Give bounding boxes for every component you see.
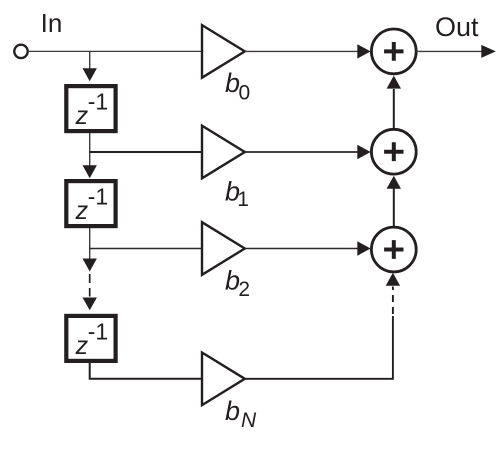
wire: input node to amplifier b0 (28, 50, 203, 52)
svg-text:In: In (41, 8, 63, 38)
delay element Z3 (z^-1) (66, 316, 115, 361)
svg-text:b: b (225, 396, 240, 426)
wire: amplifier b2 output to adder S3 (with arrowhead) (245, 241, 371, 255)
svg-text:-1: -1 (88, 89, 108, 115)
label b1 (225, 176, 249, 211)
wire: tap to amplifier b1 (90, 151, 203, 153)
label bN (225, 396, 257, 432)
svg-text:0: 0 (239, 81, 251, 104)
wire: adder S1 to output Out (with arrowhead) (416, 45, 496, 58)
wire: amplifier bN output right and up toward adder S3 (solid part) (245, 316, 393, 379)
wire: amplifier b1 output to adder S2 (with arrowhead) (245, 145, 371, 159)
dashed wire (ellipsis) continuing up to adder S3 (with arrowhead) (386, 273, 400, 314)
svg-text:z: z (75, 197, 89, 225)
label b2 (225, 265, 250, 301)
label b0 (225, 68, 250, 105)
dashed wire (ellipsis) down to delay Z3 (with arrowhead) (83, 274, 97, 310)
wire: delay Z2 down, ending in arrowhead (83, 228, 97, 272)
wire: tap from input line down into delay Z1 (with arrowhead) (83, 51, 97, 81)
svg-text:Out: Out (435, 12, 479, 42)
wire: delay Z1 down to delay Z2 (with arrowhead) (83, 133, 97, 178)
wire: adder S2 up to adder S1 (with arrowhead) (387, 76, 401, 130)
svg-text:-1: -1 (88, 184, 108, 210)
wire: amplifier b0 output to adder S1 (with arrowhead) (245, 44, 371, 58)
wire: tap to amplifier b2 (90, 248, 203, 250)
adder S3 (summing junction, bottom) (371, 227, 416, 272)
delay element Z1 (z^-1) (66, 86, 115, 131)
wire: delay Z3 down and right to amplifier bN (90, 363, 203, 379)
adder S2 (summing junction, middle) (371, 129, 416, 174)
svg-text:z: z (75, 332, 89, 360)
svg-text:2: 2 (238, 278, 250, 301)
svg-text:z: z (75, 102, 89, 130)
svg-text:1: 1 (237, 188, 249, 211)
svg-text:N: N (241, 409, 257, 432)
delay element Z2 (z^-1) (66, 181, 115, 226)
amplifier bN (gain triangle) (202, 353, 245, 406)
adder S1 (summing junction, top) (371, 29, 416, 74)
input terminal node In (14, 45, 27, 58)
amplifier b0 (gain triangle) (202, 25, 245, 78)
amplifier b1 (gain triangle) (202, 126, 245, 179)
wire: adder S3 up to adder S2 (with arrowhead) (387, 176, 401, 227)
svg-text:-1: -1 (88, 319, 108, 345)
amplifier b2 (gain triangle) (202, 222, 245, 275)
